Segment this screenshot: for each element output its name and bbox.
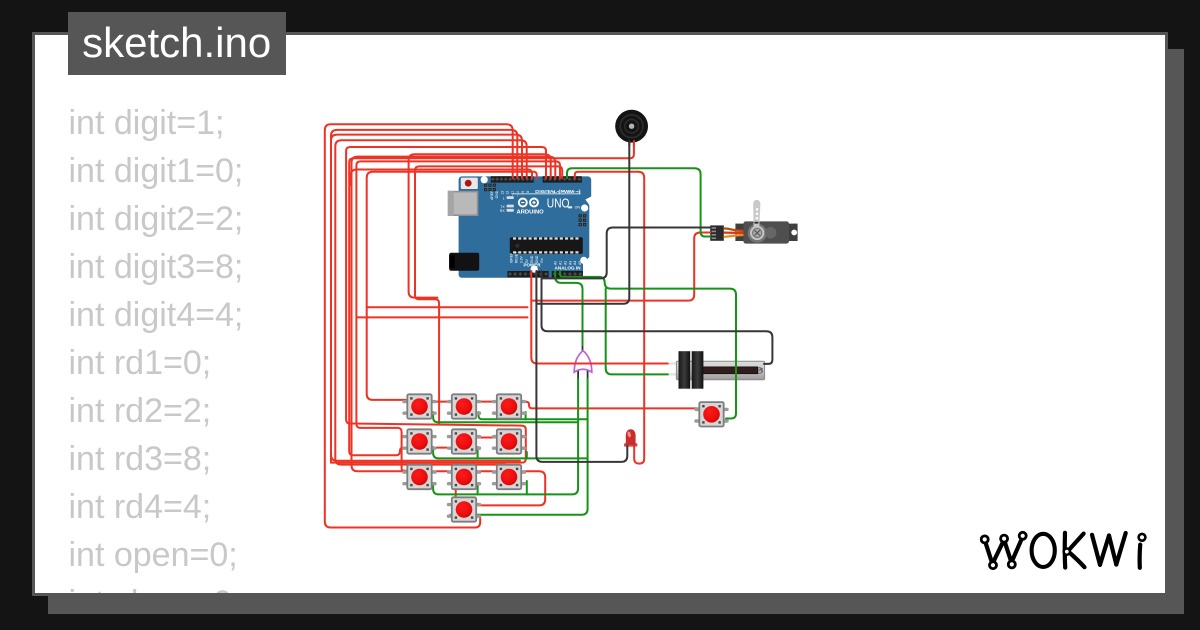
wire GND to potentiometer xyxy=(542,271,773,364)
svg-text:GND: GND xyxy=(530,255,534,263)
wire keypad R2 stub xyxy=(402,436,406,438)
svg-text:2: 2 xyxy=(567,191,571,193)
digital headers xyxy=(491,176,534,182)
pushbutton B-enter xyxy=(694,402,728,426)
svg-text:~5: ~5 xyxy=(552,191,556,195)
wire A0 to gate output xyxy=(555,271,582,345)
svg-text:IOREF: IOREF xyxy=(509,253,513,263)
icsp header 2 xyxy=(579,214,582,217)
analog header xyxy=(552,271,583,277)
wire row2 link b xyxy=(478,437,495,439)
wire row1 bus a xyxy=(479,412,588,419)
servo lead wires xyxy=(724,228,744,231)
wire pin8 loop to keypad R1 xyxy=(367,172,537,400)
wire 5V to servo xyxy=(531,233,710,301)
arduino logo xyxy=(519,199,538,207)
wire pin6 loop xyxy=(409,154,551,297)
slide potentiometer pins xyxy=(668,362,678,364)
led LED1 xyxy=(624,429,637,446)
wire potentiometer wiper xyxy=(606,289,668,375)
wire A1 to right button xyxy=(560,271,736,419)
buzzer BZ1 xyxy=(615,110,648,143)
svg-text:7: 7 xyxy=(542,191,546,193)
svg-text:4: 4 xyxy=(557,191,561,193)
power jack xyxy=(449,253,479,271)
or-gate U2 xyxy=(574,351,592,373)
wire GND to servo xyxy=(542,228,711,279)
svg-text:~11: ~11 xyxy=(511,191,515,197)
reset button xyxy=(461,178,478,189)
svg-text:8: 8 xyxy=(526,191,530,193)
servo connector xyxy=(710,225,724,240)
svg-text:13: 13 xyxy=(500,191,504,195)
tx rx leds xyxy=(507,196,514,199)
power header xyxy=(507,271,548,277)
slide potentiometer P1 xyxy=(676,351,764,389)
icsp header 1 xyxy=(484,184,487,187)
wire pin5 loop to keypad R3 xyxy=(352,157,556,472)
wokwi logo xyxy=(981,532,1145,568)
pushbutton B1 xyxy=(402,394,436,418)
svg-text:0: 0 xyxy=(576,191,580,193)
wire row1 jog c3 xyxy=(525,412,527,419)
svg-text:UNO: UNO xyxy=(547,197,570,211)
pushbutton B8 xyxy=(447,465,481,489)
led LED1 legs xyxy=(626,443,628,449)
svg-text:GND: GND xyxy=(535,255,539,263)
svg-text:~6: ~6 xyxy=(547,191,551,195)
wire pin11 loop xyxy=(331,135,522,463)
buzzer BZ1 legs xyxy=(628,138,630,146)
wire power feed b xyxy=(356,316,527,318)
wire led cathode to GND xyxy=(536,271,627,462)
wire row3 jog xyxy=(477,483,479,494)
svg-text:A0: A0 xyxy=(554,261,558,265)
pushbutton B7 xyxy=(402,465,436,489)
pot knob xyxy=(679,351,691,389)
wire row3 jog c3 xyxy=(526,481,528,494)
svg-text:~10: ~10 xyxy=(516,191,520,197)
wire pin13 loop to keypad R4 xyxy=(325,124,513,527)
wire row3 link b xyxy=(478,470,496,472)
usb connector xyxy=(448,191,479,216)
pushbutton B2 xyxy=(447,394,481,418)
svg-text:RX: RX xyxy=(500,209,505,213)
svg-text:ON: ON xyxy=(575,206,581,210)
wire row3 c2 to R4 xyxy=(455,483,457,500)
wire row2 jog c3 xyxy=(526,452,528,458)
servo M1 xyxy=(735,200,797,244)
pushbutton B5 xyxy=(447,429,481,453)
mounting holes xyxy=(481,176,488,183)
svg-text:RESET: RESET xyxy=(514,252,518,263)
wire row1 link a xyxy=(433,401,450,403)
wire row2 link a xyxy=(433,447,450,449)
wire row2 bus xyxy=(433,447,587,458)
svg-text:12: 12 xyxy=(505,191,509,195)
wire buzzer positive xyxy=(349,141,634,455)
pushbutton B6 xyxy=(492,429,526,453)
wire buzzer negative to GND xyxy=(536,141,629,304)
svg-text:A2: A2 xyxy=(563,261,567,265)
wire pin10 loop xyxy=(335,140,526,464)
svg-text:L: L xyxy=(503,196,505,200)
pushbutton B9 xyxy=(492,465,526,489)
svg-text:ARDUINO: ARDUINO xyxy=(517,209,544,215)
wire gate input A to row3 xyxy=(433,379,578,494)
wire 5V to potentiometer xyxy=(531,271,668,364)
wire pin7 loop xyxy=(331,147,546,463)
wire power feed a xyxy=(367,306,528,308)
wire led anode to pin1 xyxy=(575,172,644,464)
wire pin4 loop to keypad R2 xyxy=(356,161,560,470)
wire row2 jog xyxy=(477,447,479,458)
wire servo signal xyxy=(567,168,710,236)
wire row1 link b xyxy=(478,401,495,403)
servo horn xyxy=(753,200,760,230)
svg-text:A5: A5 xyxy=(578,261,582,265)
wire row3 to R4 hook xyxy=(478,471,545,505)
svg-text:AREF: AREF xyxy=(490,191,494,200)
svg-text:~9: ~9 xyxy=(521,191,525,195)
wire gate input B to row4 xyxy=(450,379,587,515)
wire row1 bus b xyxy=(433,412,578,422)
wire row3 link a xyxy=(433,470,450,472)
wire row1 to right button xyxy=(523,402,697,409)
svg-text:A1: A1 xyxy=(559,261,563,265)
svg-text:A3: A3 xyxy=(568,261,572,265)
svg-text:Vin: Vin xyxy=(540,258,544,263)
svg-text:~3: ~3 xyxy=(562,191,566,195)
pushbutton B0 xyxy=(447,497,481,521)
wire pin9 loop xyxy=(351,170,532,186)
pushbutton B3 xyxy=(492,394,526,418)
svg-text:1: 1 xyxy=(571,191,575,193)
svg-text:GND: GND xyxy=(495,190,499,198)
arduino uno U1 xyxy=(448,176,591,278)
wire pin3 loop to keypad C2 xyxy=(415,166,562,424)
svg-text:ANALOG IN: ANALOG IN xyxy=(555,266,581,271)
atmega328p chip xyxy=(510,237,583,254)
pushbutton B4 xyxy=(402,429,436,453)
svg-text:3.3V: 3.3V xyxy=(520,255,524,263)
svg-text:A4: A4 xyxy=(573,261,577,265)
gate pin stubs xyxy=(582,344,584,353)
wire pin12 loop xyxy=(331,130,520,461)
svg-text:5V: 5V xyxy=(525,258,529,263)
